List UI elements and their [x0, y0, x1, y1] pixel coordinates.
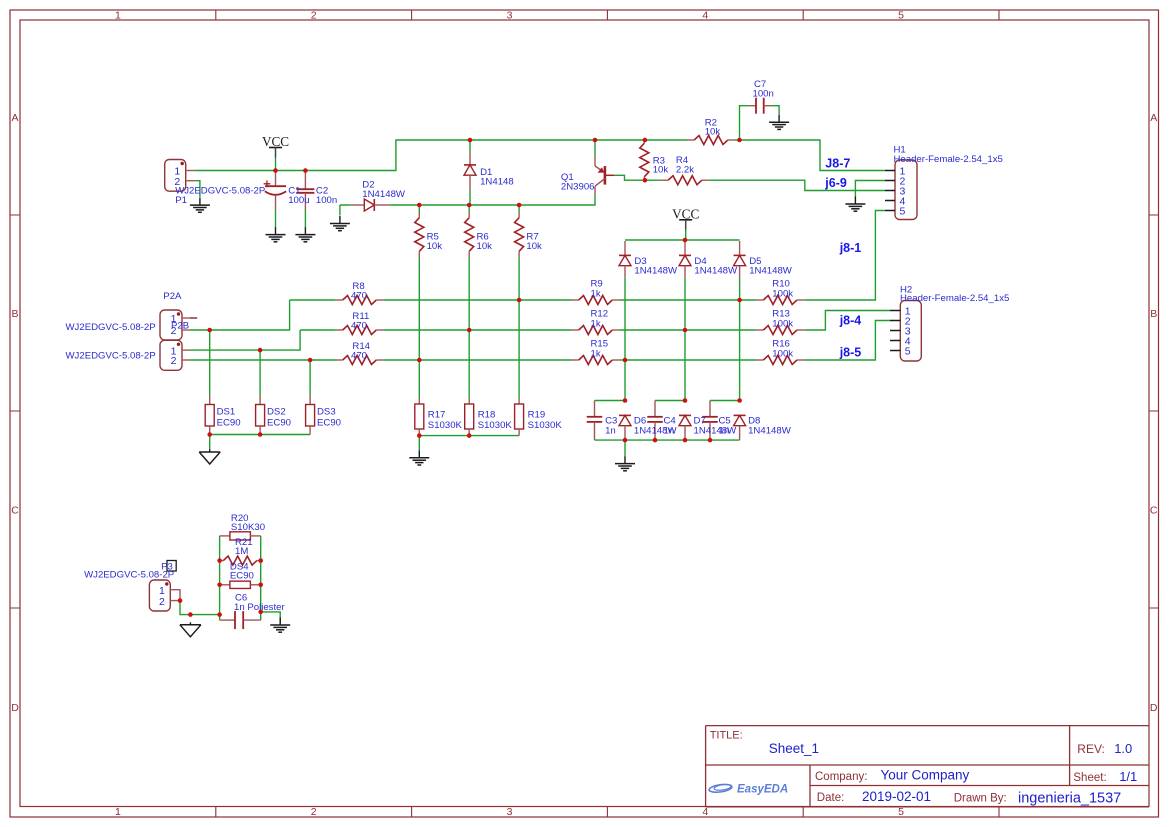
svg-text:1k: 1k: [591, 348, 601, 359]
junction C5-D8 node: [737, 398, 742, 403]
junction Q1 emitter top: [593, 138, 598, 143]
resistor R7 (10k): [515, 212, 524, 258]
wire R7 column: [518, 205, 520, 398]
connector H1 (Header-Female-2.54_1x5): [885, 160, 917, 220]
svg-text:2: 2: [159, 596, 165, 608]
wire H1 pin2 to ground: [855, 181, 885, 197]
svg-text:Drawn By:: Drawn By:: [954, 792, 1007, 804]
svg-text:WJ2EDGVC-5.08-2P: WJ2EDGVC-5.08-2P: [84, 570, 174, 581]
svg-text:1N4148W: 1N4148W: [748, 425, 792, 436]
ground (earth) below P1: [190, 198, 210, 213]
junction P3 gnd tap: [188, 612, 193, 617]
svg-text:5: 5: [905, 346, 911, 358]
svg-text:EasyEDA: EasyEDA: [737, 784, 788, 796]
capacitor C7: [749, 98, 771, 114]
junction row1-D5 col: [737, 298, 742, 303]
wire P2A pin2 to R8 jog: [190, 300, 290, 330]
svg-text:2019-02-01: 2019-02-01: [862, 789, 931, 804]
svg-text:Header-Female-2.54_1x5: Header-Female-2.54_1x5: [900, 293, 1009, 304]
svg-text:4: 4: [702, 806, 708, 818]
svg-text:5: 5: [900, 206, 906, 218]
svg-text:2: 2: [311, 9, 317, 21]
wire C2 to ground: [304, 210, 306, 227]
svg-text:REV:: REV:: [1077, 742, 1105, 756]
junction VCC rail at D4: [683, 238, 688, 243]
svg-text:A: A: [1150, 112, 1157, 124]
diode D7 (1N4148W): [679, 415, 691, 440]
junction rail2-R7: [517, 203, 522, 208]
wire left vertical of R20 loop: [219, 536, 221, 620]
junction C1 top: [273, 168, 278, 173]
varistor R19 (S1030K): [515, 398, 524, 436]
junction DS2 tap: [258, 348, 263, 353]
svg-text:1.0: 1.0: [1114, 741, 1132, 756]
svg-text:100n: 100n: [316, 195, 337, 206]
svg-text:2: 2: [311, 806, 317, 818]
resistor R6 (10k): [465, 212, 474, 258]
svg-text:R18: R18: [478, 409, 496, 420]
svg-text:1: 1: [115, 806, 121, 818]
ground (earth) below C/D rail: [615, 456, 635, 471]
wire row2 R12-R13: [619, 329, 756, 331]
ground (signal) below P3 rail: [180, 622, 201, 637]
svg-text:WJ2EDGVC-5.08-2P: WJ2EDGVC-5.08-2P: [66, 322, 156, 333]
resistor R12 (1k): [572, 326, 619, 335]
resistor R13 (100k): [756, 326, 804, 335]
svg-text:P2A: P2A: [163, 291, 182, 302]
wire H1 pin5 j8-1 down to row1: [804, 211, 885, 301]
resistor R14 (470): [336, 356, 384, 365]
transistor Q1 (2N3906): [595, 140, 614, 195]
capacitor C3 (1n): [587, 401, 603, 441]
svg-text:3: 3: [507, 806, 513, 818]
svg-text:10k: 10k: [526, 241, 542, 252]
svg-text:1N4148W: 1N4148W: [362, 189, 406, 200]
connector P3 (WJ2EDGVC-5.08-2P): [149, 580, 170, 611]
svg-text:10k: 10k: [653, 165, 669, 176]
P3 frame mark: [167, 561, 176, 572]
svg-text:WJ2EDGVC-5.08-2P: WJ2EDGVC-5.08-2P: [66, 350, 156, 361]
junction rail2-R5: [417, 203, 422, 208]
svg-text:P2B: P2B: [171, 321, 189, 332]
wire C3 top stub: [595, 400, 626, 402]
junction row3-R5 col: [417, 358, 422, 363]
power flag VCC above D3-D5: [672, 206, 699, 240]
svg-text:4: 4: [702, 9, 708, 21]
varistor R17 (S1030K): [415, 398, 424, 436]
svg-text:EC90: EC90: [230, 570, 254, 581]
resistor R10 (100k): [756, 296, 804, 305]
junction right vert - gnd branch: [258, 610, 263, 615]
resistor R15 (1k): [572, 356, 619, 365]
svg-text:10k: 10k: [477, 241, 493, 252]
junction DS3 tap: [308, 358, 313, 363]
junction D1 top: [468, 138, 473, 143]
ground (earth) below C2: [295, 227, 315, 242]
svg-text:100k: 100k: [772, 288, 793, 299]
wire D4 column: [684, 278, 686, 401]
svg-text:J8-7: J8-7: [825, 157, 850, 171]
svg-text:A: A: [11, 112, 18, 124]
svg-text:DS1: DS1: [217, 406, 236, 417]
svg-text:S10K30: S10K30: [231, 522, 265, 533]
junction R2-C7 node: [737, 138, 742, 143]
svg-text:5: 5: [898, 806, 904, 818]
ground (earth) below R17 rail: [409, 450, 429, 465]
wire C1 to ground: [275, 210, 277, 227]
diode D4 (1N4148W): [679, 241, 691, 278]
neon lamp DS3 (EC90): [306, 396, 315, 435]
capacitor C6 (1n Poliester): [220, 611, 261, 629]
svg-text:470: 470: [351, 321, 367, 332]
connector P2A (WJ2EDGVC-5.08-2P): [160, 310, 190, 340]
wire row3 R15-R16: [619, 359, 756, 361]
wire row2 R11 left: [300, 329, 336, 331]
connector P1 (WJ2EDGVC-5.08-2P): [165, 160, 195, 192]
svg-text:Header-Female-2.54_1x5: Header-Female-2.54_1x5: [894, 154, 1003, 165]
neon lamp DS4 (EC90): [220, 581, 261, 588]
P3 pin short (red): [170, 590, 180, 601]
svg-text:j8-4: j8-4: [839, 314, 862, 328]
wire DS2 column: [259, 350, 261, 395]
wire rail2 D2 to Q1 collector: [390, 195, 595, 205]
svg-text:S1030K: S1030K: [478, 420, 513, 431]
svg-text:1N4148W: 1N4148W: [749, 266, 793, 277]
svg-text:D: D: [1150, 702, 1158, 714]
svg-text:1N4148: 1N4148: [480, 176, 514, 187]
junction rail at D6: [623, 438, 628, 443]
connector P2B (WJ2EDGVC-5.08-2P): [160, 340, 190, 370]
ground (signal) below DS1 rail: [199, 450, 220, 465]
ground (earth) left of D2: [330, 216, 350, 231]
capacitor C2: [296, 171, 314, 210]
wire C7 branch up: [740, 106, 750, 140]
EasyEDA logo: [709, 783, 789, 795]
wire R6 column: [468, 205, 470, 398]
resistor R2 (10k): [687, 136, 735, 145]
svg-text:EC90: EC90: [267, 417, 291, 428]
svg-text:j6-9: j6-9: [824, 176, 847, 190]
junction R17 rail at R17: [417, 433, 422, 438]
wire DS1 column: [209, 330, 211, 396]
junction C4-D7 node: [683, 398, 688, 403]
diode D8 (1N4148W): [734, 415, 746, 440]
wire P1 pin1 to VCC rail: [195, 140, 687, 171]
svg-text:5: 5: [898, 9, 904, 21]
wire D3 column: [624, 278, 626, 401]
diode D5 (1N4148W): [734, 241, 746, 278]
svg-text:ingenieria_1537: ingenieria_1537: [1018, 790, 1121, 806]
wire row1 R9-R10: [619, 299, 756, 301]
wire R4 to H1 pin3 (j6-9): [709, 180, 885, 190]
junction rail at C5: [708, 438, 713, 443]
junction rail2-R6-D1: [467, 203, 472, 208]
resistor R21 (1M): [220, 556, 261, 565]
wire C/D bottom rail: [595, 440, 740, 456]
svg-text:j8-5: j8-5: [839, 345, 862, 359]
connector H2 (Header-Female-2.54_1x5): [890, 301, 921, 362]
wire row3 left (R14 in): [190, 359, 336, 361]
capacitor C1 curved plate and + sign: [264, 180, 287, 210]
svg-text:j8-1: j8-1: [839, 241, 862, 255]
junction P3 pins node: [178, 598, 183, 603]
wire DS bottom rail: [210, 435, 310, 451]
junction DS1 tap: [207, 328, 212, 333]
wire C4 top stub: [655, 400, 685, 402]
svg-text:D: D: [11, 702, 19, 714]
wire D5 column: [739, 278, 741, 401]
wire C5 top stub: [710, 400, 740, 402]
junction DS rail at DS2: [258, 432, 263, 437]
svg-text:1: 1: [115, 9, 121, 21]
svg-text:C: C: [1150, 504, 1158, 516]
svg-text:R17: R17: [428, 409, 446, 420]
junction R3 top: [643, 138, 648, 143]
ground (earth) below C1: [266, 227, 286, 242]
svg-text:C: C: [11, 504, 19, 516]
ground (earth) below C7: [769, 115, 789, 130]
junction rail at D7: [683, 438, 688, 443]
wire row2 R11-R12: [383, 329, 572, 331]
svg-text:Date:: Date:: [817, 792, 845, 804]
svg-text:1n: 1n: [605, 425, 616, 436]
svg-text:2: 2: [171, 355, 177, 367]
svg-text:1N4148W: 1N4148W: [634, 266, 678, 277]
svg-text:Sheet_1: Sheet_1: [769, 741, 819, 756]
wire VCC rail D3-D5: [625, 239, 740, 241]
svg-text:S1030K: S1030K: [528, 420, 563, 431]
wire P3 to ground rail: [180, 601, 220, 615]
resistor R5 (10k): [415, 212, 424, 258]
junction right vert - DS4: [258, 583, 263, 588]
svg-text:Company:: Company:: [815, 771, 867, 783]
wire R17 bottom rail: [419, 436, 519, 451]
wire row1 R8-R9: [383, 299, 572, 301]
wire row2 to H2 pin1: [804, 311, 890, 331]
svg-text:Sheet:: Sheet:: [1073, 772, 1106, 784]
capacitor C4 (1n): [647, 401, 663, 441]
junction C3-D6 node: [623, 398, 628, 403]
svg-text:1n: 1n: [719, 425, 730, 436]
varistor R18 (S1030K): [465, 398, 474, 436]
junction row2-D4 col: [683, 328, 688, 333]
resistor R4 (2.2k): [661, 176, 709, 185]
diode D3 (1N4148W): [619, 241, 631, 278]
svg-text:100k: 100k: [772, 318, 793, 329]
junction left vert - DS4: [217, 583, 222, 588]
junction R3 bottom / R4 left: [643, 178, 648, 183]
wire D1 bottom segment: [469, 189, 471, 205]
junction DS rail at DS1: [207, 432, 212, 437]
ground (earth) right of C6: [270, 618, 290, 633]
svg-text:1k: 1k: [591, 288, 601, 299]
svg-text:1N4148W: 1N4148W: [694, 425, 738, 436]
P2A pin1 stub wire: [190, 317, 197, 319]
wire rail after R2 to H1 pin1 (J8-7): [735, 140, 885, 171]
svg-text:1M: 1M: [235, 546, 248, 557]
wire C7 to ground: [771, 106, 779, 115]
svg-text:2N3906: 2N3906: [561, 181, 595, 192]
svg-text:1n: 1n: [664, 425, 675, 436]
svg-text:B: B: [11, 308, 18, 320]
resistor R9 (1k): [572, 296, 619, 305]
junction R17 rail at R18: [467, 433, 472, 438]
capacitor C1 (polarized): [265, 171, 286, 187]
svg-text:DS2: DS2: [267, 406, 286, 417]
wire R5 column: [418, 205, 420, 398]
svg-text:DS3: DS3: [317, 406, 336, 417]
neon lamp DS2 (EC90): [256, 396, 265, 435]
resistor R16 (100k): [756, 356, 804, 365]
svg-text:1N4148W: 1N4148W: [694, 266, 738, 277]
wire row1 left (R8 out): [290, 299, 336, 301]
svg-text:TITLE:: TITLE:: [710, 730, 743, 742]
junction row2-R6 col: [467, 328, 472, 333]
svg-text:1/1: 1/1: [1119, 769, 1137, 784]
junction C2 top: [303, 168, 308, 173]
svg-text:100k: 100k: [772, 348, 793, 359]
svg-text:B: B: [1150, 308, 1157, 320]
wire branch to earth: [261, 612, 281, 623]
capacitor C5 (1n): [702, 401, 718, 441]
svg-text:470: 470: [351, 351, 367, 362]
wire DS3 column: [309, 360, 311, 396]
svg-text:100u: 100u: [288, 195, 309, 206]
svg-text:2.2k: 2.2k: [676, 165, 694, 176]
svg-text:P1: P1: [175, 195, 187, 206]
diode D1 (1N4148): [464, 152, 476, 189]
varistor R20 (S10K30): [220, 532, 261, 540]
svg-text:Your Company: Your Company: [881, 768, 970, 783]
wire row3 to H2 pin2: [804, 321, 890, 361]
wire P2B pin1 to R11 jog: [190, 330, 300, 350]
title block lines: [706, 726, 1149, 807]
resistor R11 (470): [336, 326, 384, 335]
svg-text:470: 470: [351, 291, 367, 302]
svg-text:3: 3: [507, 9, 513, 21]
svg-text:10k: 10k: [705, 127, 721, 138]
junction right vert - R21: [258, 558, 263, 563]
junction rail at C4: [653, 438, 658, 443]
svg-text:EC90: EC90: [317, 417, 341, 428]
resistor R8 (470): [336, 296, 384, 305]
svg-text:EC90: EC90: [217, 417, 241, 428]
svg-text:10k: 10k: [427, 241, 443, 252]
wire right vertical of R20 loop: [260, 536, 262, 620]
svg-text:S1030K: S1030K: [428, 420, 463, 431]
junction left vert - R21: [217, 558, 222, 563]
junction net left vertical bottom: [217, 612, 222, 617]
svg-text:100n: 100n: [753, 89, 774, 100]
power flag VCC near C1: [262, 134, 289, 171]
junction row1-R7 col: [517, 298, 522, 303]
diode D2 (1N4148W): [350, 199, 389, 211]
wire D2 anode stub: [340, 205, 351, 216]
wire Q1 base to R3/R4: [614, 175, 661, 180]
neon lamp DS1 (EC90): [205, 396, 214, 435]
svg-text:WJ2EDGVC-5.08-2P: WJ2EDGVC-5.08-2P: [175, 186, 265, 197]
svg-text:1k: 1k: [591, 318, 601, 329]
junction row3-D3 col: [623, 358, 628, 363]
wire row3 R14-R15: [383, 359, 572, 361]
svg-text:R19: R19: [528, 409, 546, 420]
ground (earth) below H1 pin2: [845, 197, 865, 212]
resistor R3 (10k): [640, 140, 649, 180]
wire D1 top segment: [469, 140, 471, 152]
wire P1 pin2 down: [195, 181, 200, 198]
diode D6 (1N4148W): [619, 415, 631, 440]
